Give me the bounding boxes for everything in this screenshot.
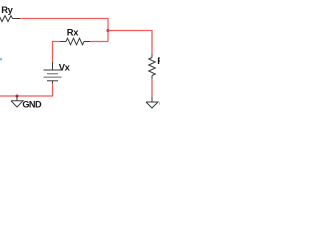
wire Rx left red bbox=[53, 41, 61, 43]
resistor Ry bbox=[0, 16, 20, 22]
wire right vertical down to RL bbox=[151, 30, 153, 54]
svg-text:Ry: Ry bbox=[1, 4, 13, 15]
battery Vx bbox=[44, 62, 62, 84]
ground GND bbox=[11, 96, 23, 107]
wire right resistor to ground bbox=[151, 79, 153, 97]
wire battery top vertical bbox=[52, 41, 54, 62]
ground right bbox=[146, 97, 158, 109]
svg-text:Rx: Rx bbox=[67, 27, 79, 38]
svg-text:R: R bbox=[157, 55, 160, 66]
wire middle horizontal to right bbox=[108, 30, 153, 32]
resistor RL (right vertical) bbox=[149, 54, 156, 79]
wire bottom horizontal bbox=[0, 95, 53, 97]
wire battery bottom vertical bbox=[52, 84, 54, 97]
junction node at (108,30.5) bbox=[107, 29, 110, 32]
svg-text:Vx: Vx bbox=[59, 61, 71, 72]
resistor Rx bbox=[60, 38, 90, 45]
node marker orange (cut off at right edge) bbox=[159, 103, 160, 105]
wire top: Ry to corner bbox=[20, 18, 109, 20]
wire vertical at x=108 bbox=[107, 18, 109, 42]
pin marker blue (cut off at left edge) bbox=[0, 58, 2, 60]
wire Rx right red to junction bbox=[90, 41, 108, 43]
svg-text:GND: GND bbox=[22, 100, 42, 110]
junction node GND at (17,96) bbox=[16, 95, 19, 98]
